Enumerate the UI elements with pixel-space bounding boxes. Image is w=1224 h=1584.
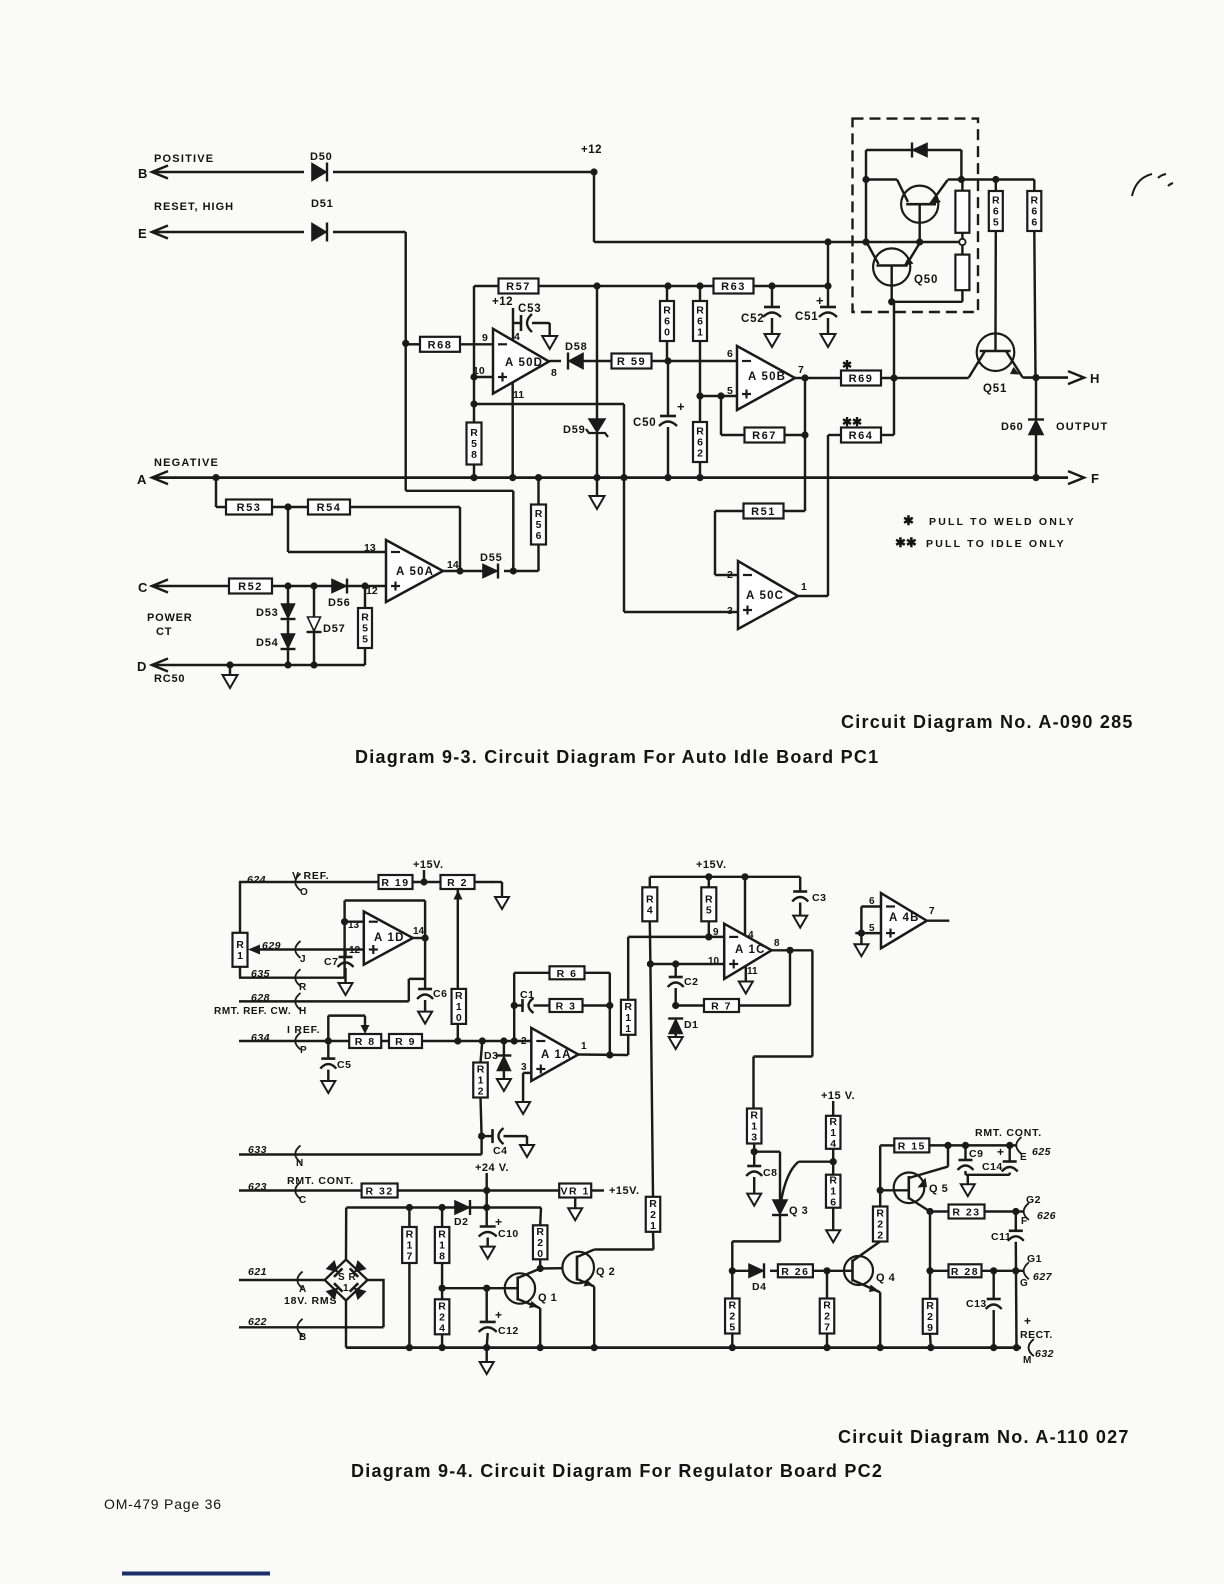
svg-text:Q 1: Q 1 xyxy=(538,1292,557,1304)
svg-text:C6: C6 xyxy=(433,988,447,1000)
svg-text:C11: C11 xyxy=(991,1231,1011,1243)
svg-text:11: 11 xyxy=(747,966,758,977)
svg-text:C4: C4 xyxy=(493,1145,507,1157)
svg-text:1: 1 xyxy=(343,1283,349,1294)
svg-text:RECT.: RECT. xyxy=(1020,1329,1053,1341)
svg-text:12: 12 xyxy=(349,945,361,956)
svg-text:OUTPUT: OUTPUT xyxy=(1056,421,1108,433)
svg-text:+: + xyxy=(816,293,824,308)
svg-text:6: 6 xyxy=(830,1197,836,1209)
svg-text:8: 8 xyxy=(471,449,477,461)
svg-text:R 9: R 9 xyxy=(395,1036,416,1048)
svg-text:R 15: R 15 xyxy=(898,1140,926,1152)
svg-text:627: 627 xyxy=(1033,1271,1053,1283)
svg-text:5: 5 xyxy=(727,385,733,397)
svg-text:+24 V.: +24 V. xyxy=(475,1162,509,1174)
svg-text:D58: D58 xyxy=(565,341,588,353)
svg-text:1: 1 xyxy=(581,1041,587,1052)
svg-text:8: 8 xyxy=(774,938,780,949)
svg-text:R: R xyxy=(299,982,307,993)
svg-text:E: E xyxy=(1020,1152,1027,1163)
svg-text:2: 2 xyxy=(478,1086,484,1098)
svg-text:D1: D1 xyxy=(684,1019,698,1031)
svg-text:C: C xyxy=(138,580,148,595)
svg-text:D56: D56 xyxy=(328,597,351,609)
svg-text:5: 5 xyxy=(706,904,712,916)
svg-text:2: 2 xyxy=(521,1036,527,1047)
svg-text:RESET, HIGH: RESET, HIGH xyxy=(154,201,234,213)
svg-text:R53: R53 xyxy=(237,502,262,514)
svg-text:D3: D3 xyxy=(484,1050,498,1062)
svg-text:Diagram 9-4. Circuit Diagram F: Diagram 9-4. Circuit Diagram For Regulat… xyxy=(351,1461,883,1481)
svg-text:VR 1: VR 1 xyxy=(561,1186,590,1198)
svg-text:1: 1 xyxy=(697,327,703,339)
svg-text:B: B xyxy=(299,1332,306,1343)
svg-text:1: 1 xyxy=(237,950,243,962)
svg-text:✱✱: ✱✱ xyxy=(842,415,862,429)
svg-text:1: 1 xyxy=(650,1220,656,1232)
svg-text:3: 3 xyxy=(751,1132,757,1144)
svg-text:D2: D2 xyxy=(454,1216,468,1228)
svg-text:621: 621 xyxy=(248,1266,267,1278)
svg-text:C13: C13 xyxy=(966,1298,987,1310)
svg-text:0: 0 xyxy=(664,327,670,339)
svg-text:O: O xyxy=(300,887,308,898)
svg-text:R63: R63 xyxy=(721,281,746,293)
svg-text:4: 4 xyxy=(439,1322,445,1334)
svg-text:+15V.: +15V. xyxy=(696,859,727,871)
svg-text:F: F xyxy=(1021,1216,1027,1227)
svg-text:Circuit Diagram No. A-110 027: Circuit Diagram No. A-110 027 xyxy=(838,1427,1130,1447)
svg-text:1: 1 xyxy=(625,1023,631,1035)
svg-text:C12: C12 xyxy=(498,1325,519,1337)
svg-text:7: 7 xyxy=(824,1322,830,1334)
svg-text:✱: ✱ xyxy=(903,513,914,528)
svg-text:B: B xyxy=(138,166,147,181)
svg-text:5: 5 xyxy=(993,217,999,229)
svg-text:PULL TO IDLE ONLY: PULL TO IDLE ONLY xyxy=(926,538,1066,550)
svg-text:D55: D55 xyxy=(480,552,503,564)
svg-text:624: 624 xyxy=(247,874,266,886)
svg-text:11: 11 xyxy=(513,389,524,401)
svg-text:R 2: R 2 xyxy=(447,877,468,889)
svg-text:R54: R54 xyxy=(317,502,342,514)
svg-text:R 32: R 32 xyxy=(366,1186,394,1198)
svg-text:✱: ✱ xyxy=(842,358,852,372)
svg-text:+: + xyxy=(997,1145,1004,1159)
svg-text:C1: C1 xyxy=(520,989,534,1001)
svg-text:A: A xyxy=(137,472,147,487)
svg-text:H: H xyxy=(299,1006,306,1017)
svg-text:Q50: Q50 xyxy=(914,274,938,286)
svg-text:4: 4 xyxy=(514,331,520,343)
svg-text:632: 632 xyxy=(1035,1348,1054,1360)
svg-text:Diagram 9-3. Circuit Diagram F: Diagram 9-3. Circuit Diagram For Auto Id… xyxy=(355,747,879,767)
svg-text:Q 4: Q 4 xyxy=(876,1272,896,1284)
svg-text:OM-479 Page 36: OM-479 Page 36 xyxy=(104,1496,222,1512)
svg-text:NEGATIVE: NEGATIVE xyxy=(154,457,219,469)
svg-text:+12: +12 xyxy=(581,144,602,156)
svg-text:A 50C: A 50C xyxy=(746,590,784,602)
svg-text:1: 1 xyxy=(801,581,807,593)
svg-text:C10: C10 xyxy=(498,1228,519,1240)
svg-text:Q 3: Q 3 xyxy=(789,1205,808,1217)
svg-text:R64: R64 xyxy=(849,430,874,442)
svg-text:R 19: R 19 xyxy=(381,877,409,889)
svg-text:POWER: POWER xyxy=(147,612,193,624)
svg-text:R 8: R 8 xyxy=(355,1036,376,1048)
svg-text:G2: G2 xyxy=(1026,1194,1041,1206)
svg-text:+15 V.: +15 V. xyxy=(821,1090,855,1102)
svg-text:Q 5: Q 5 xyxy=(929,1183,948,1195)
svg-text:C7: C7 xyxy=(324,956,338,968)
svg-text:D60: D60 xyxy=(1001,421,1024,433)
svg-text:A 50A: A 50A xyxy=(396,566,434,578)
svg-text:A: A xyxy=(299,1284,306,1295)
svg-text:C3: C3 xyxy=(812,892,826,904)
svg-text:D54: D54 xyxy=(256,637,279,649)
svg-text:6: 6 xyxy=(727,348,733,360)
svg-text:A 4B: A 4B xyxy=(889,912,920,924)
svg-text:R 59: R 59 xyxy=(617,356,646,368)
svg-text:7: 7 xyxy=(798,364,804,376)
svg-text:13: 13 xyxy=(364,542,376,554)
svg-text:R 26: R 26 xyxy=(781,1266,809,1278)
svg-text:D4: D4 xyxy=(752,1281,766,1293)
svg-text:9: 9 xyxy=(927,1322,933,1334)
svg-text:2: 2 xyxy=(727,569,733,581)
svg-text:POSITIVE: POSITIVE xyxy=(154,153,214,165)
svg-text:D57: D57 xyxy=(323,623,346,635)
svg-text:7: 7 xyxy=(929,906,935,917)
svg-text:C14: C14 xyxy=(982,1161,1003,1173)
svg-text:C52: C52 xyxy=(741,313,765,325)
svg-text:C8: C8 xyxy=(763,1167,777,1179)
svg-text:2: 2 xyxy=(877,1230,883,1242)
svg-text:Q 2: Q 2 xyxy=(596,1266,615,1278)
svg-text:4: 4 xyxy=(647,904,653,916)
svg-text:R52: R52 xyxy=(238,581,263,593)
svg-text:3: 3 xyxy=(727,605,733,617)
svg-text:A 1D: A 1D xyxy=(374,932,405,944)
svg-text:+15V.: +15V. xyxy=(413,859,444,871)
svg-text:✱✱: ✱✱ xyxy=(895,535,917,550)
svg-text:R 7: R 7 xyxy=(711,1001,732,1013)
svg-text:RC50: RC50 xyxy=(154,673,185,685)
svg-text:RMT. REF. CW.: RMT. REF. CW. xyxy=(214,1006,291,1017)
svg-text:2: 2 xyxy=(697,448,703,460)
svg-text:10: 10 xyxy=(473,365,485,377)
svg-text:626: 626 xyxy=(1037,1210,1056,1222)
svg-text:5: 5 xyxy=(729,1322,735,1334)
svg-text:D51: D51 xyxy=(311,198,334,210)
svg-text:Q51: Q51 xyxy=(983,383,1007,395)
svg-text:N: N xyxy=(296,1158,303,1169)
svg-text:+: + xyxy=(1024,1314,1031,1328)
svg-text:+: + xyxy=(677,399,685,414)
svg-text:6: 6 xyxy=(536,530,542,542)
svg-text:RMT. CONT.: RMT. CONT. xyxy=(975,1127,1042,1139)
svg-text:R 23: R 23 xyxy=(952,1207,980,1219)
svg-text:P: P xyxy=(300,1045,307,1056)
svg-text:C5: C5 xyxy=(337,1059,351,1071)
svg-text:+15V.: +15V. xyxy=(609,1185,640,1197)
svg-text:Circuit Diagram No. A-090 285: Circuit Diagram No. A-090 285 xyxy=(841,712,1134,732)
svg-text:5: 5 xyxy=(362,634,368,646)
svg-text:R 3: R 3 xyxy=(556,1001,577,1013)
svg-text:R68: R68 xyxy=(428,339,453,351)
svg-text:C50: C50 xyxy=(633,417,657,429)
svg-text:F: F xyxy=(1091,471,1099,486)
svg-text:R 28: R 28 xyxy=(951,1266,979,1278)
svg-text:C53: C53 xyxy=(518,303,542,315)
svg-text:D59: D59 xyxy=(563,424,586,436)
svg-text:6: 6 xyxy=(1031,217,1037,229)
svg-text:R51: R51 xyxy=(751,506,776,518)
svg-text:CT: CT xyxy=(156,626,172,638)
svg-text:C2: C2 xyxy=(684,976,698,988)
svg-text:C51: C51 xyxy=(795,311,819,323)
svg-text:10: 10 xyxy=(708,956,720,967)
svg-text:18V. RMS: 18V. RMS xyxy=(284,1295,337,1307)
svg-text:C: C xyxy=(299,1195,306,1206)
svg-text:+: + xyxy=(495,1308,502,1322)
svg-text:8: 8 xyxy=(551,367,557,379)
svg-text:G1: G1 xyxy=(1027,1253,1042,1265)
svg-text:3: 3 xyxy=(521,1062,527,1073)
svg-text:625: 625 xyxy=(1032,1146,1051,1158)
svg-text:8: 8 xyxy=(439,1251,445,1263)
svg-text:I REF.: I REF. xyxy=(287,1024,320,1036)
svg-text:0: 0 xyxy=(456,1012,462,1024)
svg-text:C9: C9 xyxy=(969,1148,983,1160)
svg-text:14: 14 xyxy=(447,559,459,571)
svg-text:A 1A: A 1A xyxy=(541,1049,572,1061)
svg-text:D: D xyxy=(137,659,146,674)
svg-text:A 1C: A 1C xyxy=(735,944,766,956)
svg-text:H: H xyxy=(1090,371,1099,386)
svg-text:D53: D53 xyxy=(256,607,279,619)
svg-text:J: J xyxy=(300,954,306,965)
svg-text:PULL TO WELD ONLY: PULL TO WELD ONLY xyxy=(929,516,1076,528)
svg-text:+12: +12 xyxy=(492,296,513,308)
svg-text:9: 9 xyxy=(482,332,488,344)
svg-text:0: 0 xyxy=(537,1248,543,1260)
svg-text:E: E xyxy=(138,226,147,241)
svg-text:M: M xyxy=(1023,1355,1031,1366)
svg-text:9: 9 xyxy=(713,927,719,938)
svg-text:A 50D: A 50D xyxy=(505,357,543,369)
svg-text:R 6: R 6 xyxy=(557,968,578,980)
svg-text:R67: R67 xyxy=(752,430,777,442)
svg-text:+: + xyxy=(495,1215,502,1229)
svg-text:4: 4 xyxy=(830,1138,836,1150)
svg-text:G: G xyxy=(1020,1278,1028,1289)
svg-text:R69: R69 xyxy=(849,373,874,385)
svg-text:R57: R57 xyxy=(506,281,531,293)
svg-text:A 50B: A 50B xyxy=(748,371,786,383)
svg-text:D50: D50 xyxy=(310,151,333,163)
svg-text:7: 7 xyxy=(406,1251,412,1263)
